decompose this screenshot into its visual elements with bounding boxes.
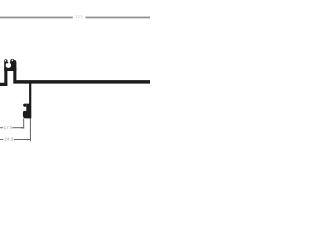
dim 24.9 arrowhead [27,139,30,141]
dim 24.9 left stub [0,139,3,140]
screw-boss hook tips [7,62,8,63]
screw-boss right hook [10,59,14,63]
screw-boss inner hole [6,62,11,67]
svg-text:24.9: 24.9 [4,137,13,142]
gasket channel web (thick section) [23,104,30,119]
screw-boss left hook [4,59,7,62]
extension line left of foot [23,118,24,128]
gasket channel top lip [23,104,26,107]
dim 24.9 line [14,139,30,140]
dimension line top (overall width) left segment [0,17,73,19]
dimension line top right segment [86,17,151,19]
main top bar of profile [13,68,150,84]
left flange and pedestal left wall [0,68,7,87]
extension line right (web continuation) [30,118,31,141]
dim 17.5 left stub [0,127,3,128]
screw-boss top slot [7,59,10,64]
svg-text:17.5: 17.5 [4,125,13,130]
dim 17.5 line [13,127,25,128]
dim 17.5 arrowhead [21,127,24,129]
svg-text:111: 111 [75,14,83,19]
thin vertical web below bar [29,83,31,118]
screw-boss omega channel outer ring [4,60,16,71]
